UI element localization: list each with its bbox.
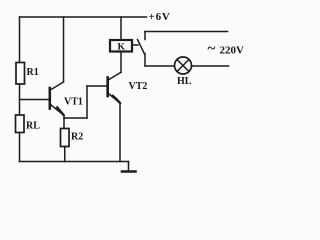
wire R2 to bottom bus — [64, 147, 66, 162]
wire VT2 collector to relay — [120, 52, 122, 73]
node VT1 emitter junction wires — [64, 116, 87, 129]
wire left rail — [19, 17, 21, 63]
ground — [122, 162, 136, 172]
wire lamp to 220V right — [192, 65, 229, 67]
svg-text:+6V: +6V — [149, 11, 171, 23]
svg-text:K: K — [118, 43, 126, 53]
relay coil K — [110, 40, 132, 52]
wire bottom bus — [20, 161, 129, 163]
node +6V label — [149, 11, 171, 23]
svg-text:220V: 220V — [220, 45, 245, 57]
relay contact blade — [138, 40, 145, 55]
resistor R1 — [16, 63, 25, 85]
svg-text:R1: R1 — [27, 67, 39, 78]
resistor RL — [16, 115, 25, 133]
wire relay armature link — [133, 44, 138, 46]
wire contact upper terminal — [144, 32, 146, 40]
wire 220V top line — [145, 31, 228, 33]
resistor R2 — [61, 129, 70, 147]
wire VT1 collector to bus — [63, 17, 65, 82]
lamp HL — [175, 57, 192, 74]
svg-text:VT1: VT1 — [64, 97, 83, 108]
wire VT1 base wire — [20, 99, 50, 101]
node ~220V label — [208, 41, 245, 57]
transistor VT2 — [108, 72, 121, 103]
svg-text:VT2: VT2 — [129, 81, 148, 92]
svg-text:RL: RL — [26, 121, 40, 132]
wire VT2 base link — [87, 86, 107, 118]
svg-text:HL: HL — [177, 76, 192, 87]
wire VT2 emitter to bottom bus — [119, 104, 121, 162]
wire R1 to RL segment — [19, 84, 21, 115]
wire bus to relay coil — [120, 17, 122, 40]
transistor VT1 — [50, 82, 64, 116]
svg-text:R2: R2 — [71, 132, 83, 143]
svg-text:~: ~ — [208, 41, 216, 57]
wire top +6V bus — [20, 16, 147, 18]
wire RL to bottom bus — [19, 133, 21, 162]
wire contact lower terminal to lamp — [145, 54, 175, 67]
